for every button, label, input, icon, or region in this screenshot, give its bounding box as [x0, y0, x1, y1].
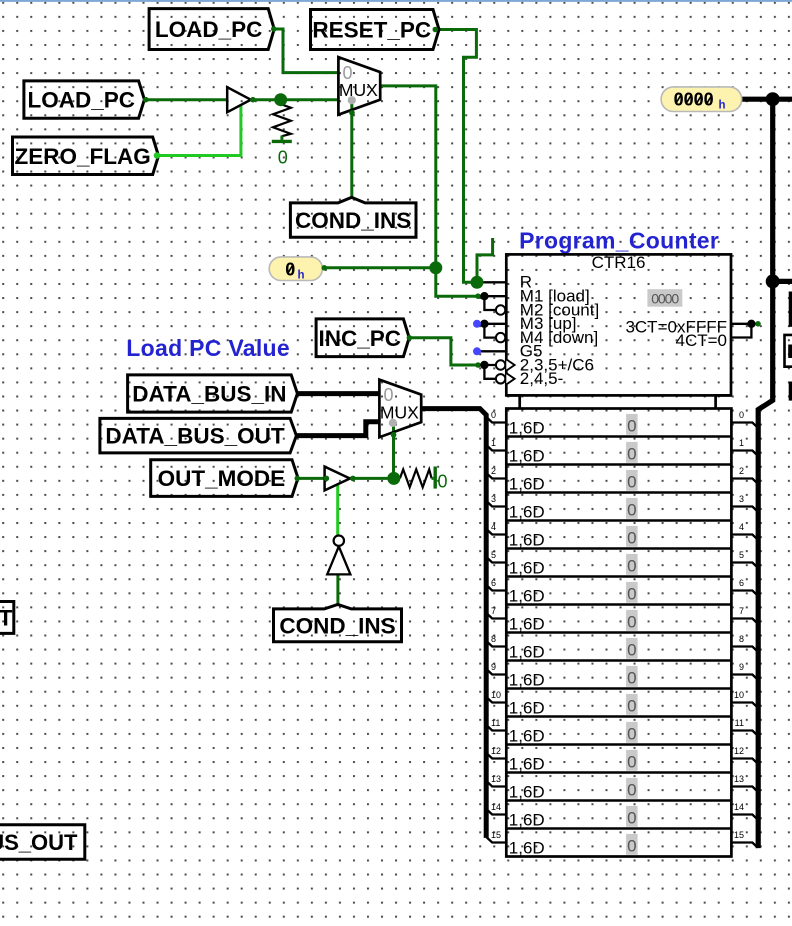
label LOAD_PC (left): [24, 81, 144, 118]
wire RESET_PC to counter R pin: [435, 30, 477, 283]
register cell 0: [491, 410, 744, 437]
node: pull resistor R2 junction: [387, 472, 400, 485]
svg-text:0000: 0000: [674, 90, 714, 110]
svg-text:0: 0: [627, 472, 636, 491]
counter pin M2 bubble: [496, 305, 505, 314]
svg-text:11: 11: [491, 718, 500, 728]
svg-text:9: 9: [739, 662, 744, 672]
svg-text:1,6D: 1,6D: [509, 782, 545, 801]
register cell 9: [491, 662, 744, 689]
svg-text:14: 14: [491, 802, 501, 812]
label COND_INS (bottom): [274, 604, 402, 641]
svg-text:0: 0: [627, 556, 636, 575]
svg-text:1,6D: 1,6D: [509, 614, 545, 633]
svg-text:11: 11: [735, 718, 744, 728]
label COND_INS (top): [290, 197, 416, 237]
svg-text:4CT=0: 4CT=0: [676, 331, 728, 350]
register bit pin stubs: [486, 417, 505, 422]
node: bus junction top right: [766, 92, 780, 106]
svg-text:7: 7: [739, 606, 744, 616]
label OUT_MODE: [151, 460, 298, 497]
svg-text:2,4,5-: 2,4,5-: [520, 369, 563, 388]
svg-text:1,6D: 1,6D: [509, 670, 545, 689]
node: driver Q1 output junction: [274, 93, 287, 106]
svg-text:13: 13: [734, 774, 744, 784]
wire stub above R junction: [477, 238, 493, 282]
pin dots: [271, 26, 277, 32]
register cell 3: [491, 494, 744, 521]
svg-text:0: 0: [627, 752, 636, 771]
register cell 14: [491, 802, 744, 829]
wire COND_INS to MUX U1 select: [350, 104, 353, 198]
label ZERO_FLAG: [13, 137, 159, 175]
register cell 4: [491, 522, 744, 549]
label RESET_PC: [311, 10, 440, 50]
svg-text:0: 0: [627, 612, 636, 631]
probe 0000h oval: [661, 87, 742, 112]
svg-text:0: 0: [627, 836, 636, 855]
svg-text:10: 10: [734, 690, 744, 700]
mux U1: [338, 57, 380, 115]
svg-text:15: 15: [491, 830, 501, 840]
wire ZERO_FLAG to driver Q1 enable: [157, 105, 241, 156]
svg-text:0: 0: [627, 528, 636, 547]
resistor R2 (pull-down, value 0): [400, 469, 432, 487]
svg-text:0: 0: [627, 416, 636, 435]
node: 0h / MUX out junction: [429, 261, 442, 274]
register cell 5: [491, 550, 744, 577]
bus probe 0000h to right edge: [742, 97, 792, 102]
svg-text:0: 0: [491, 410, 496, 420]
svg-text:1,6D: 1,6D: [509, 446, 545, 465]
inverter U3 (NOT gate pointing up): [327, 536, 350, 575]
register cell 12: [491, 746, 744, 773]
svg-text:COND_INS: COND_INS: [295, 208, 411, 233]
svg-text:Program_Counter: Program_Counter: [519, 228, 719, 254]
register cell 7: [491, 606, 744, 633]
svg-text:4: 4: [739, 522, 744, 532]
svg-text:10: 10: [491, 690, 501, 700]
register cell 10: [491, 690, 744, 717]
svg-text:1,6D: 1,6D: [509, 418, 545, 437]
svg-text:15: 15: [734, 830, 744, 840]
svg-text:3: 3: [491, 494, 496, 504]
wire INC_PC to counter clock C6 pin: [409, 338, 478, 365]
node: R pin junction: [471, 276, 484, 289]
svg-text:0: 0: [627, 584, 636, 603]
counter pin G5: [477, 350, 506, 352]
svg-text:1,6D: 1,6D: [509, 530, 545, 549]
wire driver Q1 out to MUX U1 in1: [251, 98, 339, 101]
svg-text:5: 5: [491, 550, 496, 560]
bus branch to right edge: [773, 279, 792, 284]
svg-text:0000: 0000: [651, 290, 679, 306]
svg-text:RESET_PC: RESET_PC: [312, 18, 431, 43]
label DATA_BUS_OUT: [100, 418, 297, 453]
svg-text:ZERO_FLAG: ZERO_FLAG: [14, 144, 150, 169]
svg-text:0: 0: [627, 668, 636, 687]
bus MUX U2 out to register D inputs: [421, 409, 486, 838]
svg-text:2: 2: [491, 466, 496, 476]
svg-text:1,6D: 1,6D: [509, 586, 545, 605]
svg-text:h: h: [298, 269, 305, 281]
wire COND_INS to inverter U3 in: [336, 576, 339, 605]
wire OUT_MODE to driver Q2: [298, 477, 326, 480]
svg-text:1,6D: 1,6D: [509, 810, 545, 829]
register cell 6: [491, 578, 744, 605]
counter pin M3: [477, 323, 506, 325]
bus DATA_BUS_IN to MUX U2 in0: [298, 391, 379, 396]
counter U4 CTR16 box: [506, 253, 731, 409]
svg-text:0: 0: [627, 780, 636, 799]
svg-text:1,6D: 1,6D: [509, 838, 545, 857]
mux U2: [379, 380, 421, 438]
counter pin C6 clock: [478, 364, 496, 366]
counter pin R: [477, 281, 506, 283]
svg-text:DATA_BUS_OUT: DATA_BUS_OUT: [105, 424, 284, 449]
register array 16x 1,6D cells: [506, 409, 731, 857]
window top edge strip: [0, 0, 792, 2]
register cell 2: [491, 466, 744, 493]
label INC_PC: [316, 319, 409, 357]
svg-text:T: T: [0, 606, 13, 631]
svg-text:CTR16: CTR16: [592, 253, 646, 272]
svg-text:0: 0: [627, 500, 636, 519]
resistor R1 (pull-down, value 0): [273, 105, 291, 137]
label DATA_BUS_IN: [128, 375, 298, 412]
svg-text:0: 0: [627, 640, 636, 659]
svg-text:MUX: MUX: [380, 402, 419, 422]
svg-text:2: 2: [739, 466, 744, 476]
svg-text:0: 0: [627, 724, 636, 743]
svg-text:12: 12: [734, 746, 744, 756]
svg-text:1: 1: [491, 438, 496, 448]
driver Q2 (tri-state buffer): [325, 467, 350, 491]
register cell 8: [491, 634, 744, 661]
register cell 13: [491, 774, 744, 801]
svg-text:Load PC Value: Load PC Value: [126, 335, 290, 361]
svg-text:5: 5: [739, 550, 744, 560]
svg-text:LOAD_PC: LOAD_PC: [27, 88, 135, 113]
wire MUX U1 out to counter M1 pin: [380, 86, 478, 296]
counter carry loop 3CT to 4CT: [731, 324, 751, 338]
wire select MUX U2: [392, 426, 395, 478]
svg-text:DATA_BUS_IN: DATA_BUS_IN: [132, 382, 286, 407]
register cell 15: [491, 830, 744, 857]
svg-text:1,6D: 1,6D: [509, 726, 545, 745]
black pin junction dots: [480, 292, 488, 300]
node: bus junction right: [766, 274, 780, 288]
svg-text:OUT_MODE: OUT_MODE: [158, 466, 286, 491]
svg-text:7: 7: [491, 606, 496, 616]
svg-text:US_OUT: US_OUT: [0, 830, 78, 855]
svg-text:4: 4: [491, 522, 496, 532]
label LOAD_PC (top): [149, 9, 274, 50]
register cell 11: [491, 718, 744, 745]
svg-text:0: 0: [437, 471, 447, 491]
svg-text:MUX: MUX: [339, 80, 378, 100]
counter pin 2,4,5- clock: [496, 374, 505, 383]
wire LOAD_PC(top) to MUX U1 in0: [274, 29, 339, 73]
register cell 1: [491, 438, 744, 465]
svg-text:1,6D: 1,6D: [509, 642, 545, 661]
svg-text:1: 1: [739, 438, 744, 448]
wire LOAD_PC(left) to driver Q1: [146, 98, 228, 101]
label fragment US_OUT (bottom left): [0, 825, 85, 860]
svg-text:0: 0: [627, 444, 636, 463]
bus vertical to register Q outputs: [758, 99, 773, 848]
svg-text:6: 6: [491, 578, 496, 588]
constant 0h oval: [269, 257, 322, 281]
label fragment T (left edge): [0, 602, 14, 634]
svg-text:1,6D: 1,6D: [509, 754, 545, 773]
svg-text:14: 14: [734, 802, 744, 812]
svg-text:8: 8: [739, 634, 744, 644]
svg-text:9: 9: [491, 662, 496, 672]
svg-text:0: 0: [627, 696, 636, 715]
svg-text:12: 12: [491, 746, 501, 756]
counter pin M4 bubble: [496, 333, 505, 342]
svg-text:h: h: [719, 100, 726, 112]
svg-text:13: 13: [491, 774, 501, 784]
wire driver Q2 out to pull resistor node: [350, 477, 394, 480]
svg-text:1,6D: 1,6D: [509, 558, 545, 577]
driver Q1 (tri-state buffer): [227, 87, 251, 112]
svg-text:1,6D: 1,6D: [509, 474, 545, 493]
partial label box fragments at right edge: [789, 292, 792, 327]
counter pin M1: [478, 295, 506, 297]
svg-text:6: 6: [739, 578, 744, 588]
svg-text:0: 0: [627, 808, 636, 827]
svg-text:COND_INS: COND_INS: [279, 613, 395, 638]
svg-text:3: 3: [739, 494, 744, 504]
wire constant 0h to M1 net: [324, 266, 436, 269]
svg-text:INC_PC: INC_PC: [318, 326, 401, 351]
wire inverter U3 out to driver Q2 enable: [336, 484, 339, 536]
svg-text:0: 0: [278, 148, 288, 168]
svg-text:1,6D: 1,6D: [509, 698, 545, 717]
svg-text:8: 8: [491, 634, 496, 644]
blue unconnected pin dots: [473, 320, 481, 328]
svg-text:0: 0: [739, 410, 744, 420]
svg-text:1,6D: 1,6D: [509, 502, 545, 521]
bus DATA_BUS_OUT to MUX U2 in1: [296, 422, 379, 436]
svg-text:LOAD_PC: LOAD_PC: [155, 17, 263, 42]
